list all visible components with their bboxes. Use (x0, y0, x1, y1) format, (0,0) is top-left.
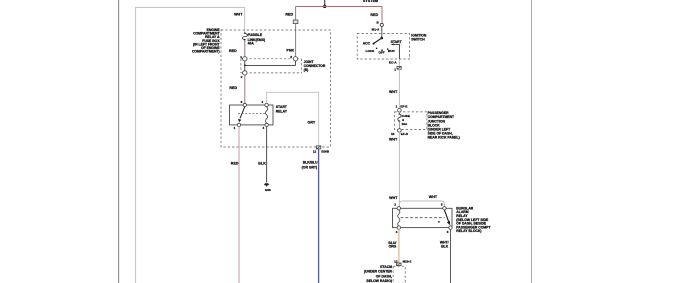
pin 2 circle (397, 207, 400, 210)
svg-text:E06B: E06B (321, 149, 330, 153)
wire RED horizontal feed (296, 6, 382, 8)
label JOINT CONNECTOR (B) (304, 60, 326, 72)
svg-text:WHT: WHT (234, 12, 243, 16)
svg-text:START: START (391, 40, 403, 44)
label START RELAY (276, 105, 288, 113)
pin 4 circle (397, 226, 400, 229)
svg-text:2: 2 (394, 203, 396, 207)
svg-text:1: 1 (234, 126, 236, 130)
svg-text:OF DASH,: OF DASH, (376, 274, 392, 278)
wire fuse to pin EF-D (398, 121, 400, 128)
svg-text:M29-2: M29-2 (403, 259, 412, 263)
svg-text:SYSTEM: SYSTEM (363, 0, 378, 3)
svg-text:2: 2 (261, 100, 263, 104)
label ETACM (364, 265, 393, 283)
svg-text:LOCK: LOCK (366, 49, 376, 53)
right page rule (531, 0, 533, 283)
node OFF (381, 49, 383, 51)
wire BLK start relay pin 4 to ground (266, 127, 268, 183)
ignition switch dashed box (357, 34, 409, 59)
svg-text:EF-D: EF-D (401, 132, 409, 136)
start relay switch wiper (238, 107, 245, 123)
svg-text:RELAY: RELAY (276, 109, 288, 113)
svg-text:2: 2 (241, 75, 243, 79)
wire RED fusible link to pin 1 (244, 41, 246, 57)
svg-text:1: 1 (394, 68, 396, 72)
fusible link box symbol (293, 20, 298, 24)
svg-text:WHT: WHT (389, 137, 398, 141)
svg-text:1: 1 (240, 55, 242, 59)
connector M29 symbol (397, 263, 401, 266)
svg-text:ETACM: ETACM (380, 265, 392, 269)
svg-text:BLK/BLU: BLK/BLU (303, 161, 318, 165)
pin 2 circle (243, 71, 247, 75)
svg-text:M1-A: M1-A (372, 28, 380, 32)
label BLK/BLU (OR GRY) (302, 161, 318, 170)
pin 6 circle (243, 103, 246, 106)
wire BLU/ORG relay pin 4 to ETACM (398, 229, 400, 262)
wire PNK to joint connector pin 3 (295, 24, 297, 57)
label BLU/ ORG (388, 241, 396, 249)
svg-text:3: 3 (290, 55, 292, 59)
pin 12 M29-2 labels (394, 259, 412, 263)
svg-text:SWITCH: SWITCH (411, 37, 425, 41)
joint connector bus wire (244, 61, 296, 71)
connector E06 (engine box exit) (316, 146, 320, 149)
svg-text:EF-E: EF-E (400, 105, 407, 109)
svg-text:3: 3 (447, 230, 449, 234)
joint connector dashed outline (241, 59, 302, 73)
ETACM dashed box (393, 266, 405, 283)
start relay box (230, 105, 274, 125)
wire RED drop to fusible link box (295, 7, 297, 21)
svg-text:RED: RED (229, 86, 237, 90)
pin 10 EF-D labels (391, 132, 409, 136)
pin 3 circle (449, 226, 452, 229)
svg-text:4: 4 (396, 230, 398, 234)
svg-text:RED: RED (229, 49, 237, 53)
svg-text:PNK: PNK (286, 49, 294, 53)
svg-text:COMPARTMENT): COMPARTMENT) (192, 50, 220, 54)
wire B to wiper pivot (381, 27, 383, 38)
left page rule (118, 0, 120, 283)
pin B circle (380, 23, 383, 26)
wire WHT to junction block (398, 69, 400, 108)
svg-text:6: 6 (241, 100, 243, 104)
svg-text:RELAY BLOCK): RELAY BLOCK) (456, 229, 481, 233)
svg-text:(B): (B) (304, 68, 309, 72)
label FUSE 9 10A (402, 114, 410, 126)
svg-text:RED: RED (285, 13, 293, 17)
connector EC-A symbol (397, 66, 401, 69)
svg-text:(UNDER CENTER: (UNDER CENTER (364, 270, 393, 274)
pin 1 circle (relay) (237, 123, 240, 126)
svg-text:BLK: BLK (441, 245, 449, 249)
wire WHT ignition to connector (398, 59, 400, 66)
label IGNITION SWITCH (411, 34, 427, 42)
svg-text:G06: G06 (265, 188, 271, 192)
ground G06 (264, 183, 269, 187)
svg-text:WHT: WHT (389, 196, 398, 200)
label BURGLAR ALARM RELAY (456, 206, 491, 233)
start relay linkage (dashed) (238, 113, 266, 115)
label ENGINE COMPARTMENT RELAY & FUSE BOX (192, 28, 221, 54)
svg-text:WHT: WHT (389, 90, 398, 94)
svg-text:40A: 40A (248, 42, 255, 46)
junction block dashed box (395, 112, 427, 130)
pin 5 circle (443, 207, 446, 210)
svg-text:11: 11 (313, 149, 317, 153)
pin 1 circle (243, 57, 247, 61)
fuse symbol (398, 113, 401, 122)
burglar alarm relay box (393, 208, 453, 227)
wire WHT junction block to burglar alarm relay (398, 132, 400, 207)
ignition wiper pivot (381, 37, 384, 40)
wire B+ feed from top (324, 0, 326, 7)
wire RED start relay pin 1 down (238, 127, 240, 283)
svg-text:BELOW RADIO): BELOW RADIO) (366, 279, 392, 283)
svg-text:ACC: ACC (363, 42, 371, 46)
label PASSENGER COMPARTMENT JUNCTION BLOCK (428, 111, 460, 140)
node junction dot (323, 5, 326, 8)
svg-text:10: 10 (391, 132, 395, 136)
start relay coil (266, 107, 268, 123)
pin 4 circle (265, 123, 268, 126)
pin 3 circle (293, 57, 297, 61)
svg-text:4: 4 (262, 126, 264, 130)
svg-text:WHT: WHT (429, 195, 438, 199)
relay contact dot (438, 221, 440, 223)
wire BLK/BLU down to bottom (318, 149, 320, 283)
pin 2 circle (relay) (265, 103, 268, 106)
wire WHT loop (bottom-left up and across top to fusible link) (136, 7, 245, 283)
svg-text:NEAR KICK PANEL): NEAR KICK PANEL) (428, 136, 460, 140)
wire RED joint connector to start relay (244, 75, 246, 103)
svg-text:1: 1 (396, 105, 398, 109)
pin 1 EF-E labels (396, 105, 408, 109)
pin EF-D circle (398, 129, 402, 133)
svg-text:RUN: RUN (388, 49, 395, 53)
node LOCK (376, 48, 378, 50)
svg-text:RED: RED (231, 161, 239, 165)
svg-text:BLK: BLK (258, 161, 266, 165)
svg-text:GRY: GRY (307, 121, 315, 125)
svg-text:RED: RED (370, 13, 378, 17)
svg-text:ORG: ORG (389, 245, 397, 249)
fusible link 40A symbol (242, 32, 247, 41)
wire RED drop to ignition switch (381, 7, 383, 24)
label FUSIBLE LINK 40A (248, 33, 266, 46)
relay coil (398, 210, 400, 226)
svg-text:5: 5 (441, 203, 443, 207)
svg-text:EC-A: EC-A (389, 61, 397, 65)
svg-text:OFF: OFF (379, 51, 385, 55)
node RUN (387, 48, 389, 50)
svg-text:(OR GRY): (OR GRY) (302, 165, 318, 169)
engine compartment relay box (dashed) (221, 30, 330, 147)
label WHT/ BLK (440, 240, 449, 248)
relay linkage (dashed) (401, 217, 445, 219)
wire GRY loop from relay pin 2 (267, 92, 319, 145)
pin EF-E circle (398, 109, 402, 113)
svg-text:FUSIBLE: FUSIBLE (248, 33, 263, 37)
svg-text:10A: 10A (402, 122, 408, 126)
wire START contact line (391, 43, 400, 59)
ignition wiper arm (373, 38, 382, 45)
relay switch arm (444, 210, 450, 225)
wire WHT jumper loop pin 2 to pin 5 (399, 201, 444, 207)
wire WHT/BLK relay pin 3 down (450, 229, 452, 283)
